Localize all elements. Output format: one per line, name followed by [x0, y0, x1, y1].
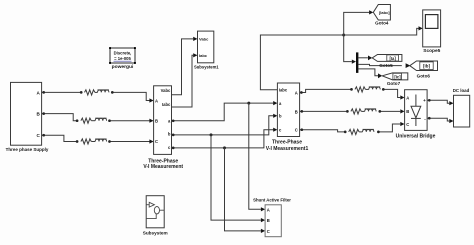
- wire junction up to Goto4: [344, 12, 369, 35]
- scope SC1 (Scope5): [423, 10, 441, 54]
- pin arrow into U3 c: [273, 128, 277, 132]
- pin arrow into demux: [352, 60, 356, 64]
- pin arrow into Goto4: [369, 10, 373, 14]
- pin arrow into bridge A: [400, 95, 404, 99]
- pin arrow into Subsystem1 Iabc: [193, 53, 197, 57]
- node U1.a: [172, 119, 175, 122]
- svg-text:Subsystem: Subsystem: [143, 231, 168, 236]
- svg-text:Shunt Active Filter: Shunt Active Filter: [253, 198, 291, 203]
- node RL3 left: [76, 140, 79, 143]
- resistor R5: [351, 109, 361, 114]
- wire branch b down to filter B: [211, 135, 261, 220]
- svg-text:Three-Phase: Three-Phase: [272, 140, 302, 146]
- svg-text:Discrete,: Discrete,: [114, 51, 132, 56]
- wire U1 Vabc to Subsystem1: [172, 39, 194, 95]
- pin arrow into filter A: [261, 207, 265, 211]
- svg-text:B: B: [295, 109, 298, 114]
- pin arrow into Goto5: [368, 56, 372, 61]
- svg-text:DC load: DC load: [453, 88, 470, 93]
- svg-text:Universal Bridge: Universal Bridge: [396, 133, 436, 139]
- resistor R6: [349, 129, 359, 134]
- load block RL7 (DC load): [453, 88, 470, 127]
- svg-text:[Ic]: [Ic]: [394, 75, 401, 80]
- resistor R4: [355, 87, 365, 92]
- three-phase source block V1 (Three phase Supply): [6, 82, 49, 151]
- wire demux out1 to Goto5: [358, 57, 368, 59]
- pin arrow into U1 port C: [149, 139, 153, 143]
- wire U1.c to U3.c: [172, 130, 274, 148]
- pin arrow into filter C: [261, 229, 265, 233]
- node RL2 right: [108, 119, 111, 122]
- wire phase A from supply: [42, 92, 150, 100]
- svg-text:C: C: [155, 139, 158, 144]
- inductor L6: [363, 130, 374, 132]
- pin arrow into U1 port A: [149, 98, 153, 102]
- node branch a: [247, 102, 250, 105]
- wire demux out3 to Goto7: [358, 69, 378, 76]
- inductor L2: [95, 118, 106, 120]
- svg-text:Vabc: Vabc: [161, 88, 171, 93]
- node bridge +: [428, 99, 431, 102]
- wire bridge - to DC load: [427, 118, 449, 121]
- node bridge -: [428, 117, 431, 120]
- svg-text:Iabc: Iabc: [162, 102, 171, 107]
- svg-text:Goto4: Goto4: [375, 20, 389, 25]
- svg-text:b: b: [279, 114, 282, 119]
- node RL6 right: [377, 131, 380, 134]
- node supply C: [42, 134, 45, 137]
- wire U3.C to bridge C: [300, 124, 401, 132]
- rectifier U6 (Universal Bridge): [396, 90, 436, 140]
- svg-text:A: A: [295, 90, 298, 95]
- pin arrow into DC load -: [449, 119, 453, 123]
- pin arrow into filter B: [261, 218, 265, 222]
- inductor L3: [95, 139, 106, 141]
- pin arrow into DC load +: [449, 101, 453, 105]
- inductor L4: [369, 87, 380, 89]
- inductor L1: [98, 90, 109, 92]
- svg-text:V-I Measurement1: V-I Measurement1: [266, 146, 309, 152]
- svg-text:Subsystem1: Subsystem1: [194, 64, 219, 69]
- wire U1.b to U3.b: [172, 116, 274, 135]
- node supply A: [42, 91, 45, 94]
- wire junction down to demux: [344, 35, 352, 62]
- node RL1 left: [80, 91, 83, 94]
- wire U3.A to bridge A: [300, 89, 401, 97]
- node RL2 left: [76, 119, 79, 122]
- wire U3.Iabc measurement signal: [260, 35, 343, 90]
- node RL5 left: [346, 110, 349, 113]
- resistor R3: [81, 139, 91, 144]
- svg-text:[Ia]: [Ia]: [389, 56, 396, 61]
- subsystem U5 (Subsystem): [143, 196, 168, 236]
- node RL4 right: [382, 88, 385, 91]
- wire U1 Iabc to Subsystem1: [172, 55, 194, 107]
- powergui block: [109, 47, 136, 70]
- wire phase B from supply: [42, 114, 150, 121]
- pin arrow into U3 b: [273, 114, 277, 118]
- wire U3.B to bridge B: [300, 110, 401, 112]
- pin arrow into U1 port B: [149, 119, 153, 123]
- resistor R1: [85, 90, 95, 95]
- node U3.C: [300, 128, 303, 131]
- svg-text:Iabc: Iabc: [279, 88, 288, 93]
- svg-text:Goto7: Goto7: [387, 81, 401, 86]
- svg-text:= 1e-005: = 1e-005: [114, 56, 131, 61]
- svg-text:B: B: [155, 119, 158, 124]
- svg-text:A: A: [267, 207, 270, 212]
- svg-text:Three phase Supply: Three phase Supply: [6, 147, 49, 152]
- svg-text:C: C: [267, 229, 270, 234]
- subsystem U4 (Shunt Active Filter): [253, 198, 291, 237]
- measurement block U3 (Three-Phase V-I Measurement1): [266, 83, 309, 152]
- svg-text:powergui: powergui: [112, 64, 134, 70]
- svg-text:A: A: [155, 98, 158, 103]
- wire bridge + to DC load: [427, 100, 449, 103]
- node U1.b: [172, 134, 175, 137]
- goto tag Goto7 [Ic]: [382, 73, 408, 86]
- resistor R2: [81, 118, 91, 123]
- svg-text:Scope5: Scope5: [423, 48, 440, 54]
- demux D1: [356, 52, 358, 73]
- svg-text:+: +: [423, 98, 426, 103]
- subsystem U2 (Subsystem1): [194, 31, 219, 69]
- pin arrow into U3 a: [273, 101, 277, 105]
- pin arrow into Goto6: [406, 63, 411, 68]
- goto tag Goto5 [Ia]: [372, 55, 402, 62]
- node RL1 right: [111, 91, 114, 94]
- svg-text:A: A: [406, 95, 409, 100]
- goto tag Goto6 [Ib]: [410, 61, 438, 78]
- inductor L5: [365, 109, 376, 111]
- pin arrow into Scope5: [419, 26, 423, 30]
- pin arrow into bridge C: [400, 122, 404, 126]
- node branch b: [210, 133, 213, 136]
- node signal junction: [342, 34, 345, 37]
- node U1.c: [172, 147, 175, 150]
- svg-text:b: b: [168, 132, 171, 137]
- svg-text:V-I Measurement: V-I Measurement: [143, 164, 183, 170]
- svg-text:B: B: [406, 109, 409, 114]
- diode D2 inside bridge: [411, 95, 421, 127]
- wire U1.a to U3.a: [172, 103, 274, 121]
- node U3.B: [300, 110, 303, 113]
- node RL4 left: [350, 88, 353, 91]
- wire demux out2 to Goto6: [358, 64, 401, 65]
- svg-text:[Iabc]: [Iabc]: [379, 10, 390, 15]
- svg-text:B: B: [267, 218, 270, 223]
- wire branch a down to filter A: [249, 103, 261, 209]
- svg-text:C: C: [406, 122, 409, 127]
- node RL6 left: [344, 131, 347, 134]
- measurement block U1 (Three-Phase V-I Measurement): [143, 86, 183, 170]
- node supply B: [42, 112, 45, 115]
- svg-text:Vabc: Vabc: [199, 37, 209, 42]
- node U3.A: [300, 91, 303, 94]
- pin arrow into Goto7: [378, 73, 382, 78]
- svg-text:Goto6: Goto6: [417, 73, 431, 78]
- wire branch c down to filter C: [225, 148, 261, 231]
- svg-text:Goto5: Goto5: [379, 63, 393, 68]
- wire phase C from supply: [42, 135, 150, 141]
- svg-text:C: C: [295, 128, 298, 133]
- node branch c: [223, 146, 226, 149]
- goto tag Goto4 [Iabc]: [373, 5, 390, 26]
- svg-text:[Ib]: [Ib]: [423, 64, 430, 69]
- svg-text:Iabc: Iabc: [199, 53, 208, 58]
- pin arrow into bridge B: [400, 109, 404, 113]
- wire junction to Scope5: [344, 28, 419, 35]
- node RL3 right: [108, 140, 111, 143]
- node RL5 right: [378, 110, 381, 113]
- pin arrow into Subsystem1 Vabc: [193, 37, 197, 41]
